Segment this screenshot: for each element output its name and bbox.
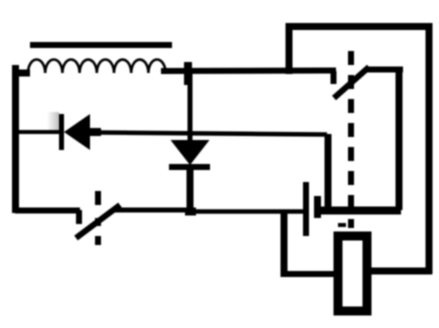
wire: left vertical <box>12 65 19 213</box>
wire: bottom left horizontal <box>15 208 80 214</box>
load resistor R1 <box>338 236 367 311</box>
wire: bottom middle horizontal <box>112 208 192 213</box>
inductor core bar <box>30 42 172 48</box>
diode D2 cathode bar <box>169 164 210 170</box>
wire: bottom to load left <box>281 271 338 277</box>
node: junction knot at D2 bottom <box>185 208 196 216</box>
diode D1 shadow smudge <box>47 112 59 132</box>
switch S2 blade <box>334 67 369 98</box>
wire: outer loop right <box>426 23 433 274</box>
wire: inner right vertical <box>396 67 403 210</box>
wire: branch down to load bottom <box>281 211 288 277</box>
wire: vertical from top wire down to diode D2 <box>188 71 193 141</box>
wire: S2 right to corner <box>366 67 403 73</box>
wire: middle horizontal right segment <box>100 133 327 135</box>
wire: vertical from D2 down to bottom wire <box>187 169 194 214</box>
battery B1 short plate <box>314 196 321 218</box>
wire: battery plus to inner-right vertical <box>318 207 401 215</box>
wire: middle horizontal left segment <box>19 130 59 134</box>
wire: outer loop top <box>286 23 433 30</box>
node: junction tick at inductor-right <box>184 62 192 85</box>
wire: outer loop left <box>286 23 293 74</box>
battery B1 long plate <box>303 182 309 236</box>
switch S1 blade <box>76 205 120 238</box>
switch S1 linkage dashes <box>95 191 101 205</box>
diode D2 triangle (pointing down) <box>171 140 210 165</box>
switch S1 left terminal tick <box>76 210 82 224</box>
linkage dashed line between switches <box>348 51 354 228</box>
diode D1 (pointing left) cathode bar <box>59 114 64 150</box>
switch S2 left terminal tick <box>331 71 337 84</box>
wire: vertical from middle wire to battery wire <box>325 134 332 210</box>
wire: inductor left stub <box>13 70 30 77</box>
diode D1 triangle <box>64 114 90 150</box>
wire: bottom horizontal to battery <box>188 209 309 214</box>
linkage end tick <box>338 223 346 227</box>
wire: load right to outer loop <box>368 268 432 275</box>
wire: D1 anode stub <box>89 128 101 136</box>
inductor L1 <box>28 60 166 74</box>
wire: top horizontal (inductor right to switch S2) <box>161 68 336 75</box>
